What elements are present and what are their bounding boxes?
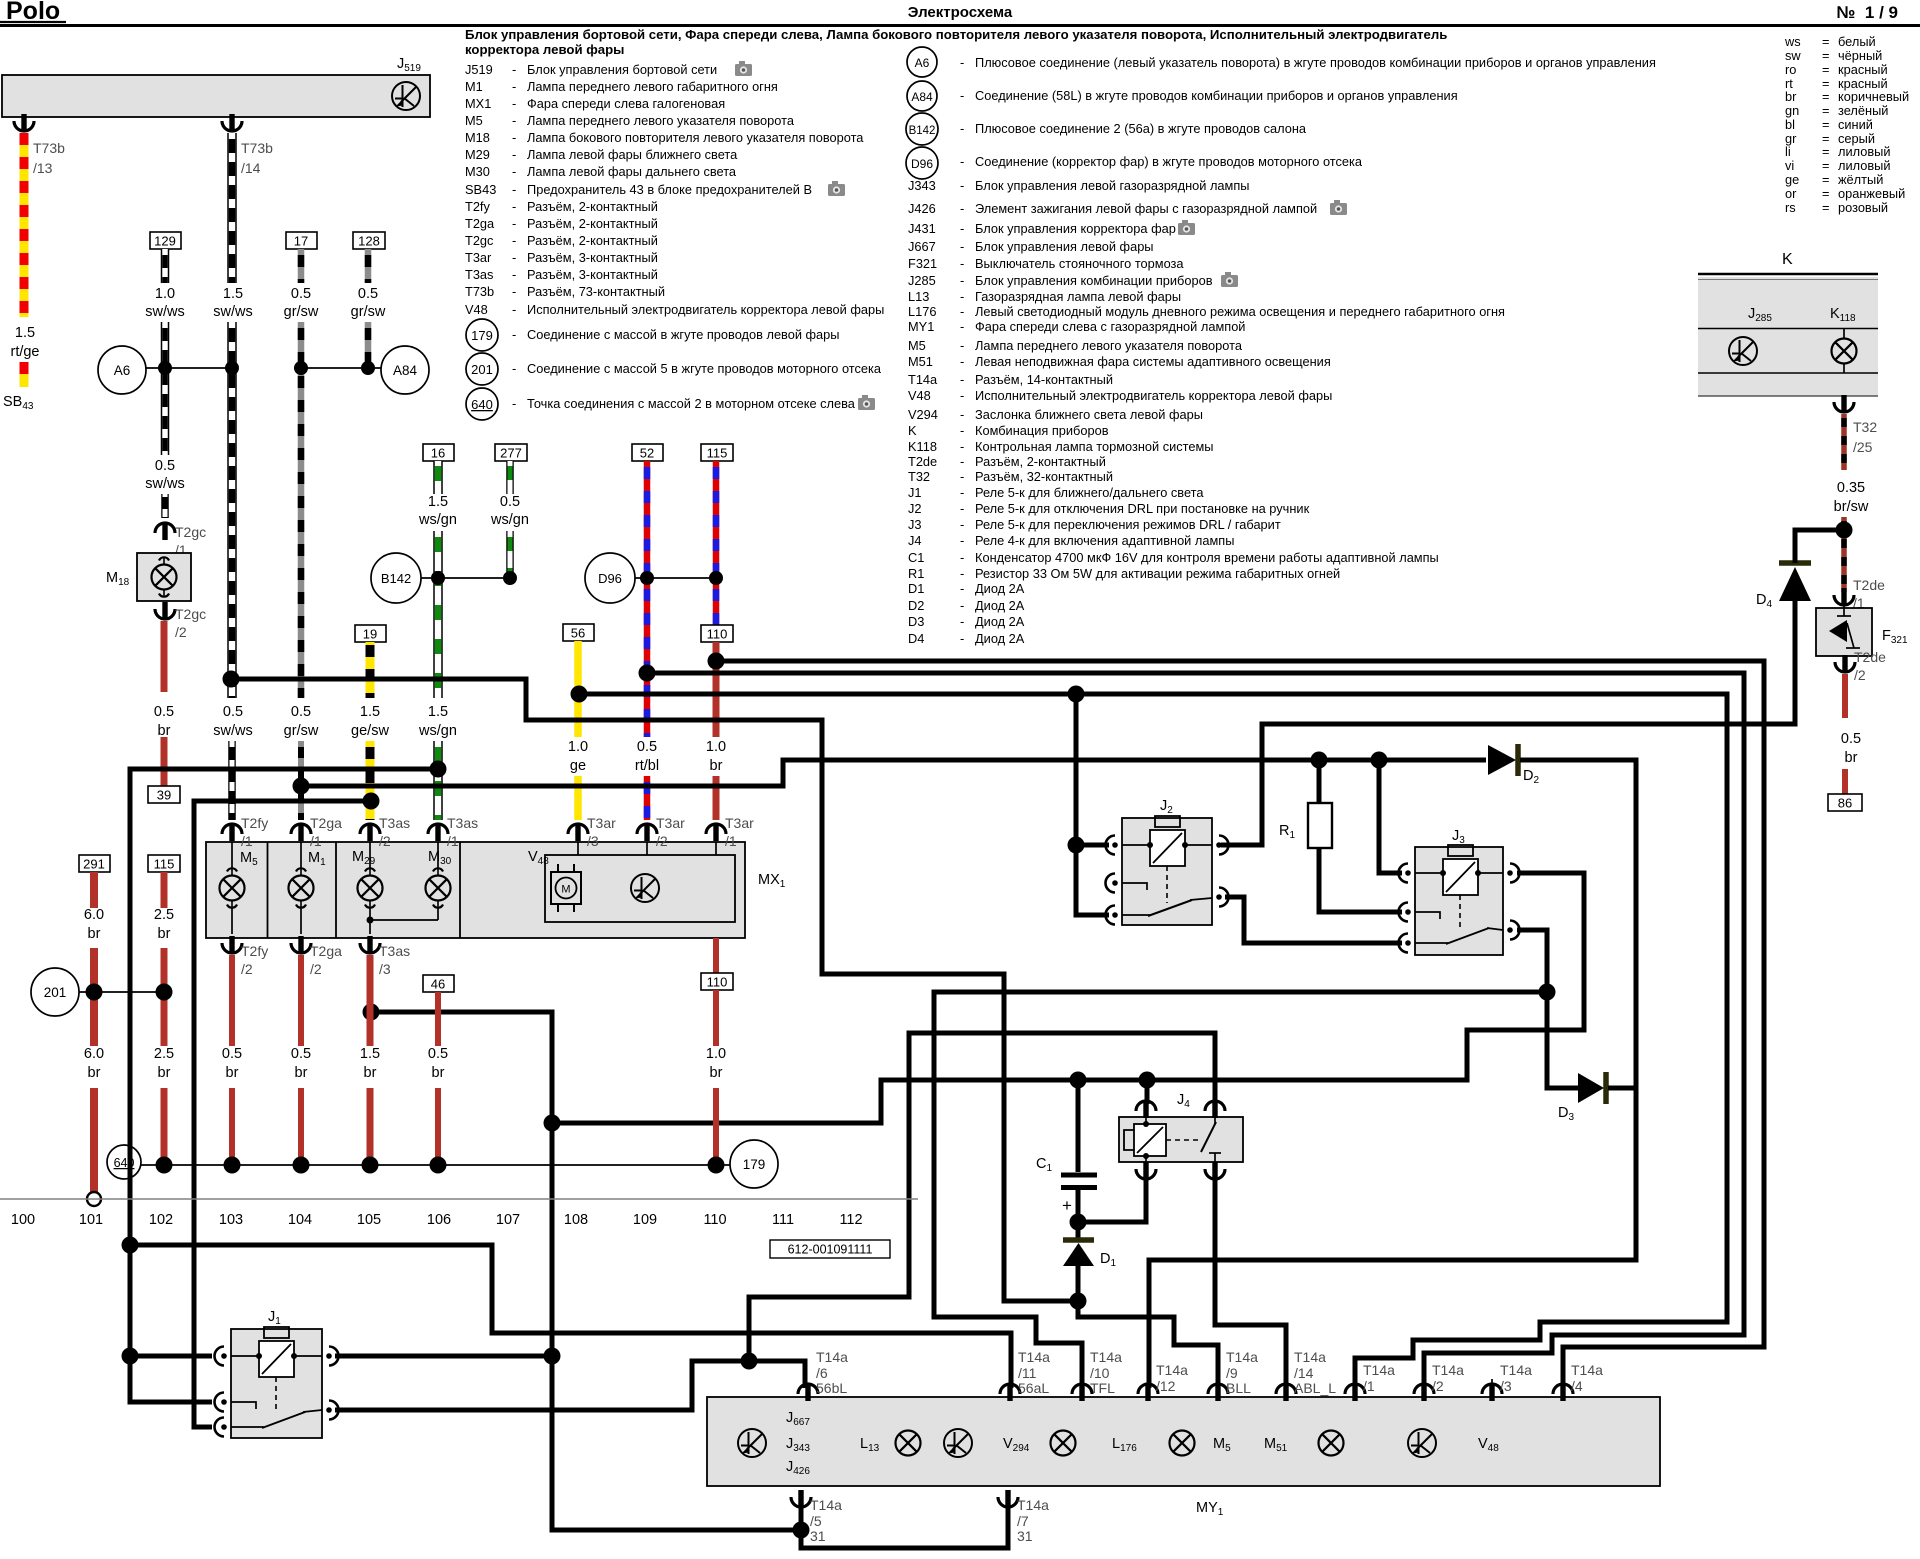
svg-text:6.0: 6.0 xyxy=(84,1046,104,1062)
wire 16 ws/gn to T3as/1 xyxy=(418,444,457,820)
junction xyxy=(640,571,654,585)
svg-text:102: 102 xyxy=(149,1212,173,1228)
svg-text:T14a: T14a xyxy=(1017,1497,1049,1513)
svg-text:розовый: розовый xyxy=(1838,200,1888,215)
svg-text:T3ar: T3ar xyxy=(587,815,616,831)
svg-text:-: - xyxy=(960,423,964,438)
junction xyxy=(122,1348,139,1365)
svg-text:/1: /1 xyxy=(447,833,459,849)
pin T3ar/1 xyxy=(706,815,754,849)
svg-text:1.5: 1.5 xyxy=(360,1046,380,1062)
svg-text:-: - xyxy=(512,96,516,111)
svg-text:110: 110 xyxy=(707,975,728,990)
svg-text:-: - xyxy=(960,566,964,581)
ground point 640 legend circle xyxy=(466,388,498,420)
colour code legend xyxy=(1784,34,1909,215)
wire J1 main feed to T14a/6 xyxy=(335,1361,805,1410)
pin J2 right pins xyxy=(1216,836,1228,855)
svg-text:M18: M18 xyxy=(465,130,490,145)
svg-text:D96: D96 xyxy=(598,571,622,586)
svg-text:-: - xyxy=(960,517,964,532)
track numbers xyxy=(11,1212,863,1228)
svg-text:Блок управления бортовой сети: Блок управления бортовой сети xyxy=(527,62,717,77)
node 201 xyxy=(31,968,79,1016)
pin J2 left pins xyxy=(1106,836,1118,855)
svg-text:T2ga: T2ga xyxy=(310,943,342,959)
wire 1.5 br T3as/3 down xyxy=(360,955,380,1161)
wire D1 node to T14a/9 xyxy=(1078,1301,1218,1388)
svg-text:Предохранитель 43 в блоке пред: Предохранитель 43 в блоке предохранителе… xyxy=(527,182,812,197)
svg-text:rt/ge: rt/ge xyxy=(10,344,39,360)
svg-text:gr/sw: gr/sw xyxy=(284,304,319,320)
svg-text:/2: /2 xyxy=(1432,1378,1444,1394)
svg-text:br: br xyxy=(710,1065,723,1081)
svg-text:Разъём, 73-контактный: Разъём, 73-контактный xyxy=(527,284,665,299)
pin J1 right pins xyxy=(326,1347,338,1366)
svg-text:1.0: 1.0 xyxy=(706,1046,726,1062)
junction xyxy=(1311,752,1328,769)
wire to J3 coil top pin xyxy=(1379,760,1402,873)
junction xyxy=(362,1157,379,1174)
svg-text:№ 1 / 9: № 1 / 9 xyxy=(1837,3,1898,22)
wire left rail y769 to J1 coil xyxy=(130,769,438,1402)
svg-text:640: 640 xyxy=(471,397,493,412)
wire x130 rail to T14a/11 xyxy=(130,1245,1011,1388)
camera icon J431 row xyxy=(1178,220,1195,235)
svg-text:-: - xyxy=(512,327,516,342)
junction xyxy=(503,571,517,585)
svg-text:V48: V48 xyxy=(465,302,488,317)
svg-text:K: K xyxy=(1782,251,1793,268)
wire T14a/5 stub xyxy=(799,1503,804,1530)
pin T73b/13 xyxy=(14,114,65,176)
svg-text:T2de: T2de xyxy=(1853,577,1885,593)
svg-text:T2de: T2de xyxy=(908,454,937,469)
pin T3ar/2 xyxy=(637,815,685,849)
svg-text:J285: J285 xyxy=(908,273,936,288)
svg-text:T3as: T3as xyxy=(465,267,493,282)
svg-text:+: + xyxy=(1062,1196,1072,1215)
pin T2de/1 xyxy=(1834,577,1885,611)
svg-text:-: - xyxy=(512,250,516,265)
svg-text:Исполнительный электродвигател: Исполнительный электродвигатель корректо… xyxy=(527,302,884,317)
svg-text:/1: /1 xyxy=(310,833,322,849)
pin T2gc/2 xyxy=(155,602,206,640)
svg-text:277: 277 xyxy=(500,446,522,461)
svg-text:/5: /5 xyxy=(810,1513,822,1529)
wire 129 sw/ws to M18 xyxy=(145,232,184,518)
svg-text:Блок управления левой газоразр: Блок управления левой газоразрядной ламп… xyxy=(975,178,1249,193)
svg-text:ro: ro xyxy=(1785,62,1796,77)
svg-text:/2: /2 xyxy=(175,624,187,640)
node B142 legend circle xyxy=(906,113,938,145)
svg-text:-: - xyxy=(512,216,516,231)
wire 6.0 br ground feed 291 xyxy=(79,855,110,1192)
header xyxy=(0,0,1920,26)
svg-text:0.5: 0.5 xyxy=(154,704,174,720)
svg-text:T2gc: T2gc xyxy=(465,233,494,248)
svg-text:T14a: T14a xyxy=(1156,1362,1188,1378)
svg-text:M30: M30 xyxy=(465,164,490,179)
svg-text:56: 56 xyxy=(571,626,585,641)
svg-text:=: = xyxy=(1822,172,1829,187)
svg-text:201: 201 xyxy=(471,362,493,377)
svg-text:-: - xyxy=(512,164,516,179)
svg-text:0.5: 0.5 xyxy=(637,739,657,755)
svg-text:D2: D2 xyxy=(908,598,924,613)
svg-text:-: - xyxy=(512,233,516,248)
svg-text:Соединение с массой 5 в жгуте: Соединение с массой 5 в жгуте проводов м… xyxy=(527,361,882,376)
svg-text:Разъём, 2-контактный: Разъём, 2-контактный xyxy=(527,216,658,231)
pin T14a/2 xyxy=(1414,1362,1464,1401)
svg-text:Диод 2A: Диод 2A xyxy=(975,631,1025,646)
pin T14a/14 xyxy=(1276,1349,1336,1401)
svg-text:-: - xyxy=(960,550,964,565)
svg-text:T32: T32 xyxy=(1853,419,1877,435)
svg-text:J519: J519 xyxy=(465,62,493,77)
junction xyxy=(571,686,588,703)
svg-text:-: - xyxy=(960,631,964,646)
svg-text:Разъём, 2-контактный: Разъём, 2-контактный xyxy=(527,199,658,214)
svg-text:2.5: 2.5 xyxy=(154,1046,174,1062)
svg-text:-: - xyxy=(960,273,964,288)
svg-text:T14a: T14a xyxy=(1294,1349,1326,1365)
wire J3 coil out staircase to ground rail xyxy=(552,873,1584,1123)
junction xyxy=(293,1157,310,1174)
svg-text:белый: белый xyxy=(1838,34,1876,49)
svg-text:T3as: T3as xyxy=(447,815,478,831)
lamp M1 xyxy=(289,842,327,934)
junction xyxy=(293,778,310,795)
pin J4 top pins xyxy=(1136,1101,1156,1118)
svg-text:Блок управления комбинации при: Блок управления комбинации приборов xyxy=(975,273,1213,288)
svg-text:-: - xyxy=(512,147,516,162)
svg-text:T2gc: T2gc xyxy=(175,524,206,540)
svg-text:Левая неподвижная фара системы: Левая неподвижная фара системы адаптивно… xyxy=(975,354,1331,369)
svg-text:0.5: 0.5 xyxy=(222,1046,242,1062)
svg-text:br: br xyxy=(88,1065,101,1081)
wire J4 coil feed from rail xyxy=(1145,1080,1150,1104)
wire 0.5 br T2ga/2 down xyxy=(291,955,311,1161)
svg-text:46: 46 xyxy=(431,977,445,992)
svg-text:M1: M1 xyxy=(465,79,483,94)
junction xyxy=(431,571,445,585)
svg-text:L13: L13 xyxy=(908,289,929,304)
svg-text:Газоразрядная лампа левой фары: Газоразрядная лампа левой фары xyxy=(975,289,1181,304)
svg-text:Лампа переднего левого указате: Лампа переднего левого указателя поворот… xyxy=(975,338,1243,353)
svg-text:31: 31 xyxy=(1017,1528,1033,1544)
svg-text:31: 31 xyxy=(810,1528,826,1544)
svg-text:лиловый: лиловый xyxy=(1838,158,1891,173)
wire C1 to J4 coil return xyxy=(1078,1176,1146,1222)
svg-text:J4: J4 xyxy=(908,533,922,548)
svg-text:B142: B142 xyxy=(909,125,936,137)
svg-text:Соединение с массой в жгуте пр: Соединение с массой в жгуте проводов лев… xyxy=(527,327,840,342)
junction xyxy=(430,1157,447,1174)
wire D96 link xyxy=(635,577,716,579)
junction xyxy=(363,1004,380,1021)
svg-text:/14: /14 xyxy=(1294,1365,1314,1381)
svg-text:=: = xyxy=(1822,89,1829,104)
pin T14a/1 xyxy=(1345,1362,1395,1401)
svg-text:1.0: 1.0 xyxy=(706,739,726,755)
wire J2 coil top pin stub xyxy=(1076,843,1109,848)
legend left column xyxy=(465,62,884,411)
wire 128 gr/sw xyxy=(351,232,386,364)
svg-text:жёлтый: жёлтый xyxy=(1838,172,1883,187)
svg-text:-: - xyxy=(512,182,516,197)
resistor R1 xyxy=(1279,760,1332,848)
diode D2 xyxy=(1488,744,1539,786)
node A84 xyxy=(381,346,429,394)
svg-text:129: 129 xyxy=(154,234,176,249)
brake switch F321 xyxy=(1816,598,1908,656)
junction xyxy=(156,1157,173,1174)
junction xyxy=(361,361,375,375)
wire rt/bl tap to T14a/2 staircase xyxy=(647,673,1744,1388)
svg-text:/12: /12 xyxy=(1156,1378,1176,1394)
relay J2 xyxy=(1122,798,1212,925)
svg-text:-: - xyxy=(960,221,964,236)
svg-text:K: K xyxy=(908,423,917,438)
instrument cluster K box xyxy=(1698,251,1878,396)
svg-text:1.0: 1.0 xyxy=(568,739,588,755)
svg-text:/10: /10 xyxy=(1090,1365,1110,1381)
capacitor C1 xyxy=(1036,1080,1097,1240)
svg-text:Выключатель стояночного тормоз: Выключатель стояночного тормоза xyxy=(975,256,1184,271)
svg-text:179: 179 xyxy=(743,1157,766,1172)
svg-text:640: 640 xyxy=(114,1156,135,1170)
svg-text:br: br xyxy=(364,1065,377,1081)
warning lamp K118 xyxy=(1830,306,1857,373)
svg-text:-: - xyxy=(960,581,964,596)
svg-text:T73b: T73b xyxy=(241,140,273,156)
wire to T14a/7 xyxy=(801,1503,1008,1548)
control unit J285 xyxy=(1729,306,1772,365)
wire J3 switch out to D3 and T14a/12 rail xyxy=(1517,930,1578,1088)
camera icon SB43 row xyxy=(828,181,845,196)
svg-text:2.5: 2.5 xyxy=(154,907,174,923)
legend title xyxy=(465,27,1447,57)
svg-text:V294: V294 xyxy=(908,407,938,422)
svg-text:0.5: 0.5 xyxy=(291,286,311,302)
pin T14a/5 xyxy=(791,1490,842,1544)
wire J1 coil top pin xyxy=(130,1354,212,1359)
motor V48 xyxy=(528,842,735,922)
svg-text:R1: R1 xyxy=(908,566,924,581)
diode D4 xyxy=(1756,563,1811,610)
svg-text:-: - xyxy=(960,407,964,422)
svg-text:612-001091111: 612-001091111 xyxy=(788,1243,873,1257)
svg-text:19: 19 xyxy=(363,627,377,642)
svg-text:1.5: 1.5 xyxy=(360,704,380,720)
svg-text:0.5: 0.5 xyxy=(358,286,378,302)
svg-text:T14a: T14a xyxy=(1432,1362,1464,1378)
node 179 xyxy=(730,1140,778,1188)
wire 1.0 br V48 down xyxy=(701,938,733,1161)
svg-text:br: br xyxy=(432,1065,445,1081)
svg-text:-: - xyxy=(960,201,964,216)
pin T2fy/1 xyxy=(222,815,268,849)
svg-text:Фара спереди слева с газоразря: Фара спереди слева с газоразрядной лампо… xyxy=(975,319,1245,334)
svg-text:sw/ws: sw/ws xyxy=(145,304,184,320)
svg-text:Комбинация приборов: Комбинация приборов xyxy=(975,423,1109,438)
svg-text:/2: /2 xyxy=(656,833,668,849)
svg-text:A6: A6 xyxy=(114,363,131,378)
svg-text:br: br xyxy=(158,926,171,942)
camera icon J519 row xyxy=(735,61,752,76)
svg-text:-: - xyxy=(512,199,516,214)
svg-text:sw: sw xyxy=(1785,48,1801,63)
svg-text:TFL: TFL xyxy=(1090,1380,1115,1396)
svg-text:Лампа левой фары дальнего свет: Лампа левой фары дальнего света xyxy=(527,164,737,179)
svg-text:T2fy: T2fy xyxy=(241,943,268,959)
svg-text:-: - xyxy=(960,338,964,353)
camera icon J285 row xyxy=(1221,272,1238,287)
svg-text:ws/gn: ws/gn xyxy=(490,512,529,528)
svg-text:T3ar: T3ar xyxy=(725,815,754,831)
svg-text:Диод 2A: Диод 2A xyxy=(975,598,1025,613)
svg-text:Разъём, 32-контактный: Разъём, 32-контактный xyxy=(975,469,1113,484)
junction xyxy=(122,1237,139,1254)
headlight MY1 box xyxy=(707,1397,1660,1518)
junction xyxy=(1836,522,1853,539)
svg-text:-: - xyxy=(960,304,964,319)
svg-text:ge/sw: ge/sw xyxy=(351,723,389,739)
svg-text:J426: J426 xyxy=(908,201,936,216)
svg-text:Заслонка ближнего света левой: Заслонка ближнего света левой фары xyxy=(975,407,1203,422)
svg-text:-: - xyxy=(512,130,516,145)
svg-text:0.5: 0.5 xyxy=(500,494,520,510)
svg-text:Лампа переднего левого габарит: Лампа переднего левого габаритного огня xyxy=(527,79,778,94)
node A6 legend circle xyxy=(907,47,937,77)
wire rt/ge from T73b/13 to SB43 xyxy=(10,133,39,387)
svg-text:F321: F321 xyxy=(908,256,937,271)
node D96 legend circle xyxy=(906,147,938,179)
pin T14a/4 xyxy=(1553,1362,1603,1401)
svg-text:100: 100 xyxy=(11,1212,35,1228)
svg-text:M5: M5 xyxy=(465,113,483,128)
svg-text:Реле 5-к для переключения режи: Реле 5-к для переключения режимов DRL / … xyxy=(975,517,1281,532)
svg-text:-: - xyxy=(960,598,964,613)
svg-text:D3: D3 xyxy=(908,614,924,629)
wire 19 ge/sw to T3as/2 xyxy=(351,625,389,820)
svg-text:/25: /25 xyxy=(1853,439,1873,455)
svg-text:111: 111 xyxy=(772,1212,794,1228)
svg-text:-: - xyxy=(960,614,964,629)
wire gr/sw tap to R1/D2 line xyxy=(301,760,1486,786)
svg-text:Элемент зажигания левой фары с: Элемент зажигания левой фары с газоразря… xyxy=(975,201,1317,216)
svg-text:-: - xyxy=(512,284,516,299)
svg-text:gr/sw: gr/sw xyxy=(351,304,386,320)
junction xyxy=(741,1353,758,1370)
wire 201 link xyxy=(79,991,164,993)
node A84 legend circle xyxy=(907,81,937,111)
svg-text:Разъём, 14-контактный: Разъём, 14-контактный xyxy=(975,372,1113,387)
svg-text:br: br xyxy=(710,758,723,774)
svg-text:M5: M5 xyxy=(908,338,926,353)
svg-text:Реле 4-к для включения адаптив: Реле 4-к для включения адаптивной лампы xyxy=(975,533,1234,548)
pin T3as/3 xyxy=(360,936,410,977)
pin T3as/1 xyxy=(428,815,478,849)
svg-text:J431: J431 xyxy=(908,221,936,236)
svg-text:-: - xyxy=(960,388,964,403)
svg-text:0.35: 0.35 xyxy=(1837,480,1865,496)
junction xyxy=(1070,1214,1087,1231)
pin T3ar/3 xyxy=(568,815,616,849)
svg-text:C1: C1 xyxy=(908,550,924,565)
svg-text:0.5: 0.5 xyxy=(291,1046,311,1062)
svg-text:Разъём, 2-контактный: Разъём, 2-контактный xyxy=(527,233,658,248)
svg-text:BLL: BLL xyxy=(1226,1380,1251,1396)
svg-text:/3: /3 xyxy=(379,961,391,977)
svg-text:-: - xyxy=(960,256,964,271)
svg-text:1.0: 1.0 xyxy=(155,286,175,302)
svg-text:Лампа левой фары ближнего свет: Лампа левой фары ближнего света xyxy=(527,147,738,162)
svg-text:T2de: T2de xyxy=(1854,649,1886,665)
junction xyxy=(544,1348,561,1365)
svg-text:201: 201 xyxy=(44,985,67,1000)
wire R1 to J3 coil low pin xyxy=(1319,848,1402,912)
svg-text:Блок управления бортовой сети,: Блок управления бортовой сети, Фара спер… xyxy=(465,27,1447,42)
svg-text:Контрольная лампа тормозной си: Контрольная лампа тормозной системы xyxy=(975,439,1214,454)
svg-text:T14a: T14a xyxy=(1018,1349,1050,1365)
junction xyxy=(1068,837,1085,854)
junction xyxy=(224,1157,241,1174)
svg-text:T2fy: T2fy xyxy=(241,815,268,831)
junction xyxy=(156,984,173,1001)
wire D3 cathode to rail xyxy=(1608,1086,1636,1091)
svg-text:M51: M51 xyxy=(908,354,933,369)
svg-text:-: - xyxy=(960,469,964,484)
lamp symbol L13 xyxy=(896,1431,921,1456)
svg-text:-: - xyxy=(960,239,964,254)
svg-text:-: - xyxy=(512,62,516,77)
svg-text:Блок управления левой фары: Блок управления левой фары xyxy=(975,239,1154,254)
svg-text:Соединение (корректор фар) в ж: Соединение (корректор фар) в жгуте прово… xyxy=(975,154,1363,169)
svg-text:sw/ws: sw/ws xyxy=(213,723,252,739)
svg-text:Реле 5-к для ближнего/дальнего: Реле 5-к для ближнего/дальнего света xyxy=(975,485,1204,500)
svg-text:107: 107 xyxy=(496,1212,520,1228)
wire A84 link xyxy=(301,367,381,369)
svg-text:J667: J667 xyxy=(908,239,936,254)
junction xyxy=(1371,752,1388,769)
junction xyxy=(1139,1072,1156,1089)
wire J1 output to ground rail xyxy=(335,1354,552,1359)
svg-text:зелёный: зелёный xyxy=(1838,103,1888,118)
pin T2ga/2 xyxy=(291,936,342,977)
legend right column xyxy=(908,55,1656,646)
svg-text:/1: /1 xyxy=(725,833,737,849)
wire 0.5 br M18 to 39 xyxy=(148,621,180,803)
junction xyxy=(223,671,240,688)
junction xyxy=(1068,686,1085,703)
pin T2ga/1 xyxy=(291,815,342,849)
wire J4 switch out to T14a/14 xyxy=(1215,1176,1286,1388)
svg-text:0.5: 0.5 xyxy=(291,704,311,720)
svg-text:16: 16 xyxy=(431,446,445,461)
svg-text:179: 179 xyxy=(471,328,493,343)
pin J3 right pins xyxy=(1507,864,1519,883)
pin T14a/9 xyxy=(1208,1349,1258,1401)
svg-text:T3as: T3as xyxy=(379,943,410,959)
svg-text:Блок управления корректора фар: Блок управления корректора фар xyxy=(975,221,1176,236)
svg-text:0.5: 0.5 xyxy=(1841,731,1861,747)
svg-text:V48: V48 xyxy=(908,388,931,403)
svg-text:/11: /11 xyxy=(1018,1365,1037,1381)
svg-text:1.5: 1.5 xyxy=(428,494,448,510)
svg-text:T14a: T14a xyxy=(1226,1349,1258,1365)
